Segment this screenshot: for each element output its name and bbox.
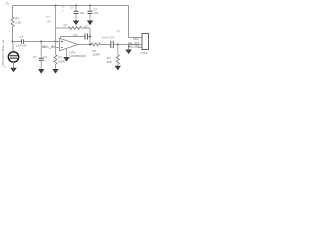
connector P1 pin3 stub: [138, 47, 142, 49]
capacitor C feedback: [61, 36, 86, 38]
wire VCC drop to bias node: [55, 6, 57, 42]
ground (out stub): [125, 50, 131, 55]
svg-text:MICROPHONE: MICROPHONE: [2, 45, 5, 66]
svg-text:MIC_IN: MIC_IN: [42, 45, 55, 49]
node mic junction: [12, 41, 14, 43]
op-amp power pin to ground: [66, 48, 68, 57]
node feedback/output: [89, 44, 91, 46]
svg-text:R?: R?: [47, 15, 51, 19]
svg-text:100K: 100K: [58, 59, 65, 63]
svg-text:R?: R?: [64, 24, 68, 28]
ground (R5): [52, 69, 58, 74]
svg-text:5V: 5V: [6, 2, 9, 6]
wire gnd stub on out: [128, 45, 130, 50]
svg-text:8: 8: [63, 11, 65, 13]
ground (op-amp): [63, 57, 69, 62]
wire top VCC rail: [13, 5, 129, 7]
ground (C2): [73, 21, 79, 26]
node rail tee at C2: [75, 5, 77, 7]
wire C1 to op-amp +in: [24, 41, 59, 43]
svg-text:VCC: VCC: [133, 37, 139, 41]
capacitor C4 to ground: [40, 42, 42, 59]
wire mic to ground: [13, 62, 15, 67]
capacitor C3 decoupling right: [89, 6, 91, 12]
ground (R4): [115, 66, 121, 71]
wire feedback top right: [81, 28, 90, 45]
capacitor C2 decoupling left: [75, 6, 77, 12]
wire left rail lower: [12, 27, 14, 42]
ground (C4): [38, 69, 44, 74]
svg-text:C?: C?: [33, 55, 37, 59]
wire C out to connector: [113, 44, 142, 46]
op-amp input stubs: [56, 47, 60, 49]
op-amp +/- marks: [61, 41, 63, 48]
wire op-amp output: [78, 44, 92, 46]
svg-text:CON3: CON3: [140, 51, 148, 55]
svg-text:100R: 100R: [93, 53, 101, 57]
capacitor C out: [111, 41, 114, 48]
node rail tee at C3: [89, 5, 91, 7]
wire right rail: [129, 6, 143, 38]
connector P1 body: [142, 34, 149, 50]
node load resistor: [117, 44, 119, 46]
node rail tee at VCC drop: [55, 5, 57, 7]
wire R3 to C out: [101, 44, 111, 46]
resistor R4 load: [117, 45, 119, 55]
resistor R5 to ground: [55, 42, 57, 55]
op-amp U1 triangle: [60, 38, 78, 51]
node R branch / bias: [55, 41, 57, 43]
wire mic stub left: [2, 40, 4, 43]
svg-text:MIC_GND: MIC_GND: [128, 45, 140, 48]
svg-text:104: 104: [43, 56, 48, 59]
svg-text:10u: 10u: [80, 11, 85, 15]
wire left rail upper: [12, 6, 14, 18]
svg-text:10K: 10K: [47, 20, 52, 24]
microphone MK1: [8, 52, 18, 62]
svg-text:10uF/16V: 10uF/16V: [16, 44, 27, 47]
svg-text:10uF/25V: 10uF/25V: [102, 36, 115, 39]
svg-text:M?: M?: [4, 67, 8, 69]
ground (C3): [87, 21, 93, 26]
wire mic drop: [12, 42, 14, 52]
svg-text:U?A: U?A: [70, 51, 76, 55]
resistor R3 output series: [91, 43, 101, 46]
ground (mic): [10, 68, 17, 73]
svg-text:104: 104: [94, 11, 99, 15]
svg-text:P?: P?: [117, 29, 121, 33]
svg-text:50V: 50V: [43, 60, 47, 62]
resistor R1 (bias, left rail): [11, 17, 14, 27]
resistor R2 feedback: [68, 27, 81, 30]
svg-text:10K: 10K: [107, 60, 112, 64]
wire feedback left drop: [60, 37, 62, 40]
svg-text:100p: 100p: [73, 34, 79, 37]
node feedback cap join: [89, 36, 91, 38]
svg-text:2.2K: 2.2K: [15, 20, 21, 24]
svg-text:C?: C?: [20, 35, 24, 39]
capacitor C1 electrolytic (input coupling): [13, 41, 22, 43]
svg-text:C?: C?: [71, 6, 75, 10]
wire feedback top branch: [56, 27, 69, 29]
node C4 branch: [40, 41, 42, 43]
svg-text:LMV358IDGKR: LMV358IDGKR: [70, 55, 87, 58]
